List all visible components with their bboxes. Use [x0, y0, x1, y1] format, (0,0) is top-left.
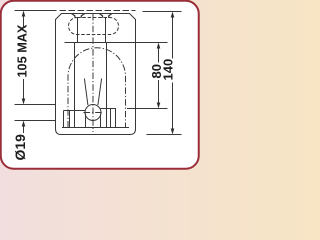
svg-text:140: 140	[160, 59, 175, 81]
svg-text:105 MAX: 105 MAX	[16, 24, 30, 77]
svg-text:Ø19: Ø19	[12, 134, 28, 161]
